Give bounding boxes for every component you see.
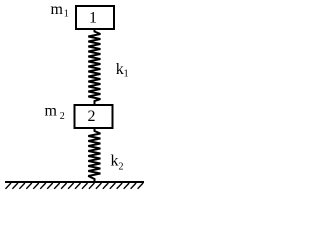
svg-text:k: k [116, 61, 124, 78]
ground hatching [6, 183, 144, 189]
svg-text:1: 1 [64, 9, 69, 20]
svg-text:2: 2 [119, 162, 124, 173]
svg-text:k: k [111, 153, 119, 170]
spring k1 [88, 29, 100, 104]
svg-text:2: 2 [88, 108, 96, 125]
spring k2 [88, 129, 100, 183]
svg-text:1: 1 [124, 69, 129, 80]
svg-text:m: m [45, 102, 58, 119]
svg-text:2: 2 [60, 111, 65, 122]
svg-text:1: 1 [89, 10, 97, 27]
mass block m1 [76, 6, 114, 29]
ground line [5, 181, 144, 183]
mass block m2 [75, 105, 113, 128]
svg-text:m: m [51, 1, 64, 18]
